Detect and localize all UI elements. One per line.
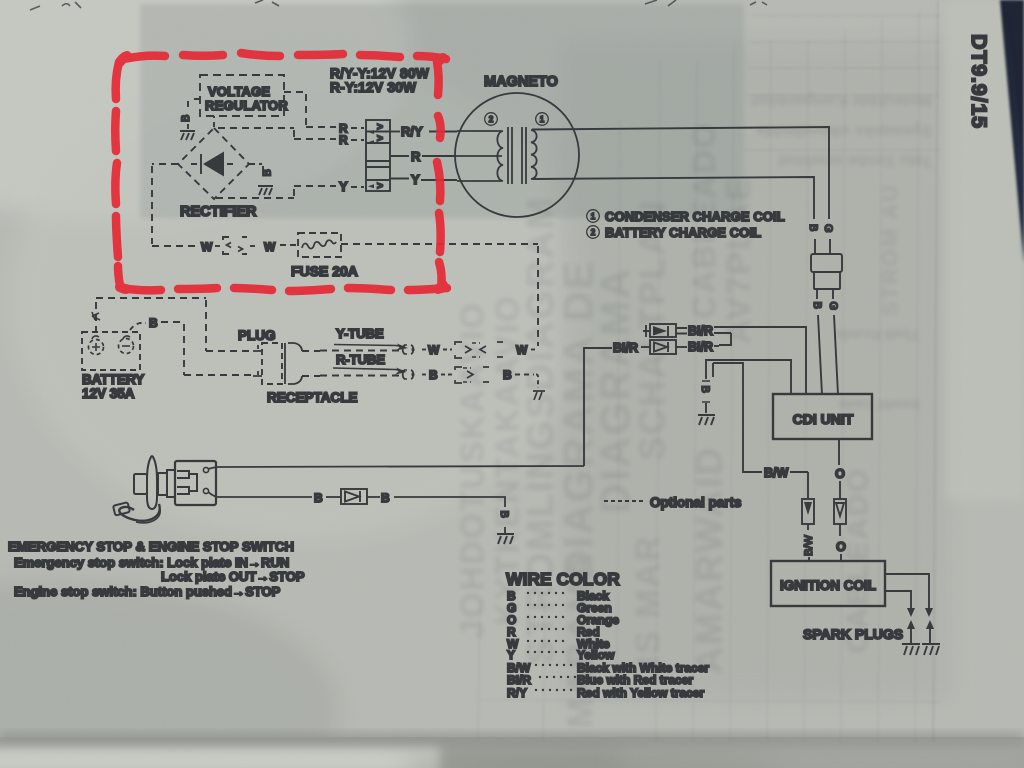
- ground spark plug 1: [902, 644, 920, 655]
- wire to switch ground: [504, 527, 506, 533]
- svg-text:B/W: B/W: [803, 535, 815, 556]
- battery label: [82, 372, 144, 401]
- svg-text:B: B: [381, 491, 390, 505]
- fuse label: [291, 263, 358, 279]
- svg-text:EMERGENCY STOP & ENGINE STOP S: EMERGENCY STOP & ENGINE STOP SWITCH: [8, 539, 294, 554]
- ignition coil box: [771, 561, 885, 606]
- svg-text:CONDENSER CHARGE COIL: CONDENSER CHARGE COIL: [605, 209, 785, 224]
- wire B/W to ignition coil: [803, 524, 815, 562]
- node W right: [516, 343, 538, 357]
- dark background top-right corner: [1000, 0, 1024, 263]
- voltage regulator box: [200, 75, 284, 116]
- ground regulator: [180, 131, 195, 140]
- svg-text:>: >: [377, 134, 383, 145]
- svg-text:Lock plate OUT→STOP: Lock plate OUT→STOP: [161, 569, 305, 584]
- connector stack arrows: [368, 122, 383, 192]
- wire regulator to ground: [188, 99, 200, 129]
- node B right: [503, 368, 534, 382]
- wire B/W to connector: [790, 472, 808, 499]
- battery plus terminal: [89, 336, 104, 355]
- stop switch terminals: [203, 467, 208, 493]
- node B regulator ground: [180, 115, 192, 122]
- wire color row B: [507, 589, 609, 603]
- connector B bullet: [403, 370, 415, 379]
- wire color row B/W: [507, 661, 709, 675]
- Y-tube label: [336, 326, 384, 341]
- stop switch note 3: [14, 584, 281, 599]
- svg-text:Tatu Sxnbe aewblod: Tatu Sxnbe aewblod: [779, 152, 933, 169]
- CDI unit box: [773, 394, 872, 439]
- red dash right edge: [437, 62, 442, 289]
- wire magneto G to connector: [532, 127, 829, 219]
- svg-text:RECTIFIER: RECTIFIER: [180, 204, 257, 220]
- wire G to CDI: [827, 289, 839, 395]
- svg-text:G: G: [827, 302, 839, 311]
- svg-text:2: 2: [591, 228, 596, 237]
- wire battery B to receptacle: [130, 316, 253, 375]
- ground spark plug 2: [922, 644, 940, 655]
- node B vertical label: [498, 511, 510, 518]
- svg-text:B/W: B/W: [764, 466, 789, 480]
- wire ignition to plug 1: [885, 591, 915, 617]
- svg-text:Y: Y: [411, 172, 420, 187]
- battery minus terminal: [119, 336, 134, 354]
- battery box: [82, 332, 140, 370]
- svg-text:R-TUBE: R-TUBE: [336, 352, 385, 367]
- node R row1 label: [339, 122, 364, 136]
- svg-text:BI/R: BI/R: [688, 324, 713, 338]
- battery charge coil winding: [455, 131, 503, 181]
- wire rectifier top to regulator: [213, 116, 215, 127]
- Y-tube pointer arrow: [334, 344, 408, 351]
- svg-text:R: R: [339, 133, 348, 147]
- wire W receptacle to connector: [302, 350, 402, 353]
- ignition coil label: [780, 578, 876, 593]
- R-tube label: [336, 352, 385, 367]
- node Y input label: [339, 179, 364, 194]
- spark plug 1: [907, 620, 915, 643]
- legend condenser charge coil: [587, 209, 785, 224]
- condenser charge coil winding: [531, 130, 537, 179]
- diode D1 top: [643, 324, 676, 337]
- plug pins: [253, 345, 262, 376]
- stop switch button: [134, 474, 147, 494]
- svg-text:Red with Yellow tracer: Red with Yellow tracer: [577, 686, 704, 700]
- pin label 2: [485, 113, 498, 126]
- svg-text:Engine stop switch: Button pus: Engine stop switch: Button pushed→STOP: [14, 584, 281, 599]
- connector stack block: [366, 120, 390, 191]
- svg-text:SPARK PLUGS: SPARK PLUGS: [803, 626, 903, 642]
- svg-text:Y: Y: [507, 648, 515, 662]
- stop switch lock plate pin: [147, 456, 157, 509]
- svg-text:FUSE 20A: FUSE 20A: [291, 263, 358, 279]
- wire B to ground small: [536, 375, 538, 388]
- node BI/R top: [676, 324, 713, 338]
- wire B to CDI: [811, 289, 823, 395]
- svg-text:Optional parts: Optional parts: [650, 495, 742, 510]
- svg-text:>: >: [377, 122, 383, 133]
- rectifier diamond: [178, 128, 249, 199]
- svg-text:BATTERY: BATTERY: [82, 372, 144, 387]
- wire color title: [506, 569, 620, 589]
- wire color row O: [507, 613, 619, 627]
- svg-text:B: B: [498, 511, 510, 518]
- wire CDI O output: [835, 439, 845, 499]
- wire switch bottom line: [208, 492, 312, 497]
- red marker rectangle: [115, 53, 447, 291]
- wire magneto B to connector: [532, 177, 814, 219]
- svg-text:O: O: [836, 540, 846, 554]
- svg-text:1: 1: [591, 212, 596, 221]
- svg-text:RECEPTACLE: RECEPTACLE: [267, 390, 358, 405]
- magneto circle: [455, 93, 579, 217]
- stop switch note 1: [14, 555, 289, 570]
- svg-text:CDI UNIT: CDI UNIT: [793, 411, 854, 427]
- voltage regulator label: [205, 84, 288, 113]
- node W label left: [201, 240, 223, 254]
- svg-text:R/Y: R/Y: [401, 124, 423, 139]
- svg-text:B: B: [149, 316, 158, 330]
- wire rectifier bottom to Y input: [216, 186, 336, 198]
- connector W inline pair: [455, 342, 503, 358]
- wire switch to diode D2: [584, 348, 612, 466]
- wire fuse to W-tube junction: [341, 244, 538, 346]
- plug label: [238, 328, 276, 343]
- node R row2 label: [339, 133, 364, 147]
- stop switch heading: [8, 539, 294, 554]
- wire color row R: [507, 625, 600, 639]
- svg-text:IS MAR: IS MAR: [629, 535, 667, 666]
- node BI/R left: [613, 341, 650, 355]
- wire B receptacle to connector: [302, 375, 402, 378]
- wire rectifier left to W line: [152, 164, 198, 246]
- node B rectifier right: [262, 169, 274, 176]
- pin label 1: [536, 113, 549, 126]
- connector B/W bullet: [802, 499, 814, 524]
- svg-text:W: W: [516, 343, 528, 357]
- wire rectifier top to R input row2: [218, 128, 336, 139]
- svg-text:BI/R: BI/R: [507, 673, 531, 687]
- svg-text:DIAGRAMA: DIAGRAMA: [592, 267, 639, 514]
- svg-text:B: B: [314, 491, 323, 505]
- wire R/Y output: [390, 124, 457, 139]
- spec label 12V 30W: [330, 80, 417, 95]
- svg-text:BI/R: BI/R: [613, 341, 638, 355]
- wire O to ignition coil: [836, 524, 846, 562]
- ground tube B: [533, 391, 545, 400]
- top edge stray marks: [30, 0, 767, 10]
- wire W to fuse: [250, 240, 297, 254]
- wire BI/R branch: [714, 333, 731, 345]
- wire color row BI/R: [507, 673, 693, 687]
- svg-text:2: 2: [489, 115, 494, 124]
- svg-text:B: B: [429, 368, 438, 382]
- wire R output: [390, 149, 455, 164]
- svg-text:B: B: [699, 386, 711, 393]
- node B cdi ground: [699, 386, 711, 414]
- svg-text:Yellow: Yellow: [577, 648, 615, 662]
- svg-text:Tba9 Kcmla: Tba9 Kcmla: [835, 326, 920, 343]
- svg-text:R/Y: R/Y: [507, 686, 527, 700]
- red corner blobs: [120, 56, 443, 289]
- svg-text:1: 1: [540, 115, 545, 124]
- svg-text:B: B: [811, 302, 823, 309]
- fuse 20A box: [298, 233, 341, 257]
- ghost bleed-through layer: [454, 0, 941, 742]
- svg-text:STROM AU: STROM AU: [878, 184, 903, 317]
- wire color row R/Y: [507, 686, 704, 700]
- red dash top edge: [124, 53, 446, 59]
- svg-text:Blue with Red tracer: Blue with Red tracer: [577, 673, 693, 687]
- stop switch body: [175, 461, 216, 505]
- node BI/R right: [676, 340, 719, 354]
- red dash left edge: [115, 62, 120, 286]
- stop switch note 2: [161, 569, 305, 584]
- legend battery charge coil: [587, 225, 762, 240]
- svg-text:BATTERY CHARGE COIL: BATTERY CHARGE COIL: [605, 225, 761, 240]
- svg-text:R: R: [411, 149, 421, 164]
- svg-text:12V 35A: 12V 35A: [82, 386, 135, 401]
- red dash bottom edge: [121, 288, 447, 291]
- svg-text:W: W: [201, 240, 213, 254]
- CDI unit label: [793, 411, 854, 427]
- svg-text:IGNITION COIL: IGNITION COIL: [780, 578, 876, 593]
- svg-text:WIRE COLOR: WIRE COLOR: [506, 569, 620, 589]
- node G upper: [822, 224, 834, 254]
- svg-text:R/Y-Y:12V 80W: R/Y-Y:12V 80W: [330, 66, 430, 81]
- receptacle body: [262, 343, 302, 384]
- rectifier diode triangle: [191, 152, 236, 177]
- svg-text:PLUG: PLUG: [238, 328, 276, 343]
- diode D3 switch: [341, 489, 367, 504]
- node B upper: [807, 224, 819, 254]
- wire BI/R to CDI: [714, 327, 806, 395]
- wire regulator to R input row1: [284, 92, 336, 127]
- ground switch: [497, 534, 514, 544]
- svg-text:VOLTAGE: VOLTAGE: [208, 84, 270, 99]
- svg-text:Emergency stop switch: Lock pl: Emergency stop switch: Lock plate IN→RUN: [14, 555, 289, 570]
- wire rectifier right to ground: [249, 164, 263, 172]
- magneto core: [508, 127, 526, 184]
- node B/W label: [764, 466, 789, 480]
- svg-text:>: >: [377, 181, 383, 192]
- connector W inline: [223, 237, 247, 254]
- connector O bullet: [834, 499, 846, 524]
- svg-text:BI/R: BI/R: [688, 340, 713, 354]
- wire B/W loop: [713, 363, 762, 472]
- wire battery to plug top: [92, 298, 253, 351]
- svg-text:DT9.9/15: DT9.9/15: [967, 34, 991, 129]
- bottom page fold: [0, 733, 1024, 768]
- stop switch lanyard cord: [113, 502, 160, 523]
- svg-text:O: O: [835, 467, 845, 481]
- svg-text:R-Y:12V 30W: R-Y:12V 30W: [330, 80, 417, 95]
- svg-text:REGULATOR: REGULATOR: [205, 98, 288, 113]
- wire Y output: [390, 172, 457, 187]
- svg-text:Moteuhble Kampanblad: Moteuhble Kampanblad: [752, 92, 932, 109]
- wire switch top line: [208, 466, 584, 469]
- svg-text:B: B: [262, 169, 274, 176]
- svg-text:B: B: [503, 368, 512, 382]
- wire color row Y: [507, 648, 615, 662]
- connector magneto pair: [811, 254, 842, 289]
- ground cdi: [698, 415, 715, 425]
- svg-text:Y: Y: [339, 179, 348, 194]
- connector B inline: [455, 367, 489, 383]
- spark plugs label: [803, 626, 903, 642]
- svg-text:W: W: [264, 240, 276, 254]
- diode D2: [650, 340, 676, 354]
- svg-text:B: B: [807, 224, 819, 231]
- node B switch: [314, 491, 340, 505]
- svg-text:AV7PLAE: AV7PLAE: [720, 176, 758, 344]
- node B switch right: [367, 491, 505, 507]
- svg-text:W: W: [428, 343, 440, 357]
- svg-text:Syewanke vibnadbidde: Syewanke vibnadbidde: [756, 122, 932, 139]
- svg-text:B: B: [180, 115, 192, 122]
- page number DT9.9/15: [967, 34, 991, 129]
- node W tube: [422, 343, 452, 357]
- ground rectifier right: [258, 186, 273, 195]
- magneto label: [484, 74, 558, 90]
- wire color row W: [507, 637, 610, 651]
- optional parts legend: [604, 495, 742, 510]
- receptacle label: [267, 390, 358, 405]
- tape patch top: [140, 4, 744, 218]
- connector W bullet: [403, 345, 415, 354]
- stop switch collar: [158, 470, 175, 497]
- wire CDI to ground loop: [702, 360, 791, 395]
- svg-text:AMARWAID: AMARWAID: [689, 446, 731, 675]
- svg-text:Y-TUBE: Y-TUBE: [336, 326, 384, 341]
- node B tube: [422, 368, 452, 382]
- wire ignition to plug 2: [885, 574, 933, 617]
- rectifier label: [180, 204, 257, 220]
- spec label 12V 80W: [330, 66, 430, 81]
- svg-text:MAGNETO: MAGNETO: [484, 74, 558, 90]
- svg-text:G: G: [822, 224, 834, 233]
- spark plug 2: [926, 620, 934, 643]
- wire color row G: [507, 601, 612, 615]
- R-tube pointer arrow: [333, 368, 407, 375]
